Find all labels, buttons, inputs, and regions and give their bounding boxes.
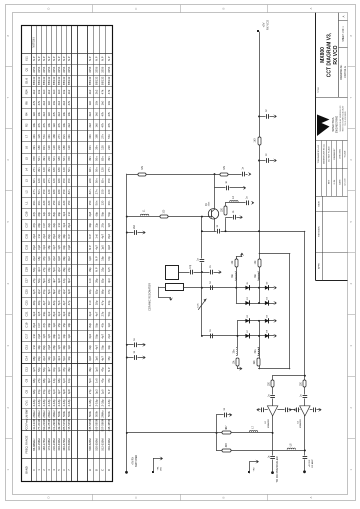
svg-text:180: 180 bbox=[52, 134, 56, 139]
svg-text:56n: 56n bbox=[94, 178, 98, 183]
ground after C34 bbox=[144, 356, 146, 359]
svg-text:220: 220 bbox=[57, 145, 61, 150]
svg-text:N.P: N.P bbox=[94, 267, 98, 272]
junction emitter rail to +5V rail bbox=[258, 230, 260, 232]
junction U2 output node bbox=[272, 432, 274, 434]
svg-text:33p: 33p bbox=[47, 267, 51, 272]
svg-text:18p: 18p bbox=[67, 322, 71, 327]
junction trunk / varactor row 4 bbox=[201, 335, 203, 337]
svg-text:219-253M: 219-253M bbox=[47, 418, 51, 431]
ground row1 bbox=[275, 286, 277, 289]
capacitor C20 bbox=[233, 215, 237, 219]
svg-text:C14: C14 bbox=[24, 355, 28, 360]
capacitor C52 1n bbox=[266, 114, 270, 118]
svg-text:1n0: 1n0 bbox=[32, 333, 36, 338]
transistor Q1 2SC3356 bbox=[208, 209, 219, 219]
svg-text:3356: 3356 bbox=[47, 66, 51, 73]
svg-text:565-595M: 565-595M bbox=[94, 418, 98, 431]
terminal TO RX PRESCALER bbox=[271, 471, 274, 474]
svg-text:N.P: N.P bbox=[94, 256, 98, 261]
wire left feed cluster2 bbox=[237, 321, 239, 347]
diode D6 bbox=[265, 319, 269, 323]
svg-text:L1: L1 bbox=[24, 201, 28, 204]
inductor L3 mid feed bbox=[258, 272, 259, 280]
svg-text:4p7: 4p7 bbox=[101, 333, 105, 338]
svg-text:N.P: N.P bbox=[37, 323, 41, 328]
svg-text:6p8: 6p8 bbox=[88, 211, 92, 216]
svg-text:L5: L5 bbox=[24, 157, 28, 160]
svg-text:15p: 15p bbox=[57, 322, 61, 327]
svg-text:193-219M: 193-219M bbox=[42, 418, 46, 431]
svg-text:82p: 82p bbox=[94, 289, 98, 294]
svg-text:N.P: N.P bbox=[62, 56, 66, 61]
svg-text:39p: 39p bbox=[67, 311, 71, 316]
svg-text:2-18p: 2-18p bbox=[88, 399, 92, 407]
svg-text:56p: 56p bbox=[94, 322, 98, 327]
svg-text:470-500M: 470-500M bbox=[67, 438, 71, 451]
svg-text:27p: 27p bbox=[37, 378, 41, 383]
svg-text:33p: 33p bbox=[107, 345, 111, 350]
svg-text:39n: 39n bbox=[94, 145, 98, 150]
svg-text:4p7: 4p7 bbox=[57, 389, 61, 394]
svg-text:2k2: 2k2 bbox=[62, 100, 66, 105]
svg-text:1k0: 1k0 bbox=[253, 138, 256, 143]
svg-text:22p: 22p bbox=[52, 222, 56, 227]
svg-text:10k: 10k bbox=[62, 111, 66, 116]
svg-text:3356: 3356 bbox=[107, 66, 111, 73]
svg-text:39p: 39p bbox=[94, 278, 98, 283]
svg-text:C13: C13 bbox=[24, 367, 28, 372]
ground after C12 bbox=[244, 186, 246, 189]
svg-text:1n0: 1n0 bbox=[88, 300, 92, 305]
svg-text:448-485M: 448-485M bbox=[107, 418, 111, 431]
svg-text:1k0: 1k0 bbox=[57, 89, 61, 94]
inductor L4 left feed bbox=[235, 272, 236, 280]
svg-text:500k: 500k bbox=[107, 410, 111, 417]
svg-text:1p0: 1p0 bbox=[107, 322, 111, 327]
svg-text:82n: 82n bbox=[88, 145, 92, 150]
svg-text:CHECKED: CHECKED bbox=[339, 148, 341, 159]
chevron in U3 bbox=[293, 408, 295, 411]
svg-text:C8: C8 bbox=[24, 390, 28, 394]
svg-text:2-18p: 2-18p bbox=[32, 399, 36, 407]
svg-text:6p8: 6p8 bbox=[57, 278, 61, 283]
svg-text:6p8: 6p8 bbox=[67, 245, 71, 250]
diode D2 bbox=[265, 286, 269, 290]
wire right amp column bbox=[304, 376, 306, 472]
svg-text:15p: 15p bbox=[37, 389, 41, 394]
svg-text:2-18p: 2-18p bbox=[57, 399, 61, 407]
capacitor C36 series left amp bbox=[271, 395, 275, 399]
svg-text:1k0: 1k0 bbox=[47, 100, 51, 105]
wire resonator lower to row 2 bbox=[183, 287, 202, 289]
junction trunk / C32 stub bbox=[126, 344, 128, 346]
svg-text:C: C bbox=[134, 8, 138, 10]
svg-text:3p3: 3p3 bbox=[94, 389, 98, 394]
ground after C52 bbox=[275, 115, 277, 118]
svg-text:2MHz: 2MHz bbox=[101, 410, 105, 418]
svg-text:5p6: 5p6 bbox=[52, 356, 56, 361]
svg-text:39n: 39n bbox=[47, 167, 51, 172]
svg-text:APPD: APPD bbox=[318, 263, 321, 269]
svg-text:C18732.G: C18732.G bbox=[343, 66, 347, 78]
svg-text:27n: 27n bbox=[107, 167, 111, 172]
svg-text:NOTES(-): NOTES(-) bbox=[32, 37, 35, 48]
svg-text:C29: C29 bbox=[24, 267, 28, 272]
svg-text:3356: 3356 bbox=[62, 66, 66, 73]
svg-text:2-18p: 2-18p bbox=[107, 399, 111, 407]
resistor R5 bbox=[160, 215, 168, 218]
svg-text:220: 220 bbox=[47, 200, 51, 205]
svg-text:68p: 68p bbox=[37, 222, 41, 227]
svg-text:68p: 68p bbox=[94, 211, 98, 216]
capacitor C18 on L2 row bbox=[246, 201, 250, 205]
svg-text:39n: 39n bbox=[107, 200, 111, 205]
svg-text:68p: 68p bbox=[37, 211, 41, 216]
capacitor C34 1n bbox=[134, 356, 138, 360]
svg-text:BB132: BB132 bbox=[47, 76, 51, 85]
svg-text:180: 180 bbox=[57, 167, 61, 172]
svg-text:47p: 47p bbox=[101, 300, 105, 305]
ceramic resonator X1 upper bbox=[166, 266, 179, 280]
svg-text:10k: 10k bbox=[107, 100, 111, 105]
diode D7 bbox=[245, 334, 249, 338]
svg-text:120: 120 bbox=[42, 167, 46, 172]
svg-text:174-208M: 174-208M bbox=[47, 438, 51, 451]
svg-text:2p2: 2p2 bbox=[42, 234, 46, 239]
wire C20 stub bbox=[226, 217, 241, 219]
wire trunk lower extension to control terminal bbox=[126, 433, 128, 472]
svg-text:10k: 10k bbox=[62, 122, 66, 127]
svg-text:2p2: 2p2 bbox=[37, 289, 41, 294]
svg-text:N.P: N.P bbox=[88, 245, 92, 250]
svg-text:47k: 47k bbox=[37, 100, 41, 105]
svg-text:3p3: 3p3 bbox=[42, 245, 46, 250]
capacitor C40 bbox=[285, 408, 289, 412]
wire resonator row 1 bbox=[179, 272, 202, 274]
svg-text:22p: 22p bbox=[47, 389, 51, 394]
svg-text:8p2: 8p2 bbox=[67, 222, 71, 227]
svg-text:150: 150 bbox=[101, 189, 105, 194]
svg-text:10k: 10k bbox=[52, 100, 56, 105]
ground left column bottom bbox=[240, 367, 242, 370]
svg-text:39p: 39p bbox=[88, 222, 92, 227]
svg-text:68p: 68p bbox=[42, 378, 46, 383]
test point TP1 bbox=[152, 471, 154, 473]
svg-text:C: C bbox=[134, 496, 138, 498]
junction row4 left feed bbox=[237, 335, 239, 337]
svg-text:39n: 39n bbox=[57, 200, 61, 205]
svg-text:111-133M: 111-133M bbox=[32, 418, 36, 431]
inductor L2 bbox=[230, 200, 238, 201]
svg-text:180: 180 bbox=[52, 189, 56, 194]
svg-text:3356: 3356 bbox=[88, 66, 92, 73]
svg-text:33p: 33p bbox=[101, 267, 105, 272]
svg-text:N.P: N.P bbox=[32, 56, 36, 61]
capacitor C50 series left output bbox=[271, 456, 275, 460]
svg-text:2p2: 2p2 bbox=[57, 267, 61, 272]
svg-text:2MHz: 2MHz bbox=[42, 410, 46, 418]
svg-text:2p2: 2p2 bbox=[62, 289, 66, 294]
svg-text:33p: 33p bbox=[94, 222, 98, 227]
svg-text:27p: 27p bbox=[32, 278, 36, 283]
svg-text:MELBOURNE:487 SOMERVILLE RD: MELBOURNE:487 SOMERVILLE RD bbox=[340, 105, 342, 132]
svg-text:22p: 22p bbox=[67, 267, 71, 272]
svg-text:+5V RX: +5V RX bbox=[309, 459, 311, 467]
svg-text:10p: 10p bbox=[67, 356, 71, 361]
svg-text:39p: 39p bbox=[52, 333, 56, 338]
svg-text:2MHz: 2MHz bbox=[47, 410, 51, 418]
svg-text:27p: 27p bbox=[88, 389, 92, 394]
svg-text:1p0: 1p0 bbox=[88, 256, 92, 261]
svg-text:545-565M: 545-565M bbox=[88, 418, 92, 431]
svg-text:68p: 68p bbox=[32, 389, 36, 394]
svg-text:220: 220 bbox=[42, 200, 46, 205]
diode D4 bbox=[265, 301, 269, 305]
svg-text:6p8: 6p8 bbox=[67, 389, 71, 394]
svg-text:39n: 39n bbox=[32, 200, 36, 205]
svg-text:120: 120 bbox=[101, 200, 105, 205]
svg-text:1k0: 1k0 bbox=[88, 100, 92, 105]
svg-text:150: 150 bbox=[67, 156, 71, 161]
svg-text:4p7: 4p7 bbox=[94, 345, 98, 350]
svg-text:520-550M: 520-550M bbox=[94, 438, 98, 451]
svg-text:18p: 18p bbox=[37, 256, 41, 261]
svg-text:L2: L2 bbox=[24, 190, 28, 193]
svg-text:C37: C37 bbox=[24, 222, 28, 227]
svg-text:47k: 47k bbox=[52, 111, 56, 116]
svg-text:3356: 3356 bbox=[37, 66, 41, 73]
capacitor C54 1n bbox=[266, 159, 270, 163]
resistor R14 in supply row bbox=[222, 431, 231, 434]
svg-text:D: D bbox=[107, 469, 111, 471]
svg-text:47k: 47k bbox=[42, 122, 46, 127]
svg-text:56n: 56n bbox=[107, 134, 111, 139]
svg-text:1p0: 1p0 bbox=[67, 333, 71, 338]
amplifier U3 MSA0886 bbox=[300, 406, 310, 416]
svg-text:1p5: 1p5 bbox=[101, 245, 105, 250]
svg-text:39p: 39p bbox=[62, 234, 66, 239]
svg-text:82n: 82n bbox=[67, 189, 71, 194]
svg-text:39n: 39n bbox=[42, 156, 46, 161]
svg-text:C17: C17 bbox=[24, 333, 28, 338]
riser emitter resistor bottom bbox=[225, 219, 227, 232]
svg-text:120: 120 bbox=[101, 145, 105, 150]
svg-text:500k: 500k bbox=[67, 410, 71, 417]
svg-text:56p: 56p bbox=[94, 333, 98, 338]
svg-text:1p5: 1p5 bbox=[107, 222, 111, 227]
wire +5V rail vertical bbox=[259, 32, 261, 254]
svg-text:10k: 10k bbox=[94, 100, 98, 105]
svg-text:39n: 39n bbox=[88, 156, 92, 161]
wire C30 stub bbox=[127, 232, 144, 234]
svg-text:39n: 39n bbox=[88, 134, 92, 139]
svg-text:RX VCO: RX VCO bbox=[333, 45, 339, 64]
svg-text:1k0: 1k0 bbox=[42, 89, 46, 94]
test point TP2 bbox=[248, 471, 250, 473]
svg-text:FREQ. RANGE: FREQ. RANGE bbox=[24, 435, 28, 453]
svg-text:2-18p: 2-18p bbox=[52, 399, 56, 407]
svg-text:39n: 39n bbox=[32, 134, 36, 139]
capacitor C24 resonator coupling bbox=[190, 270, 194, 274]
amplifier U2 MSA0886 bbox=[267, 406, 277, 416]
capacitor C42 bbox=[296, 408, 300, 412]
svg-text:C23: C23 bbox=[24, 300, 28, 305]
junction switched supply / branch bbox=[216, 432, 218, 434]
svg-text:47k: 47k bbox=[101, 89, 105, 94]
svg-text:150: 150 bbox=[42, 189, 46, 194]
ground after C32 bbox=[144, 343, 146, 346]
inductor L8 in lower row bbox=[287, 448, 295, 449]
ground after C48 bbox=[230, 413, 232, 416]
svg-text:440-470M: 440-470M bbox=[62, 438, 66, 451]
node +5V supply terminal bbox=[257, 30, 259, 32]
svg-text:N.P: N.P bbox=[107, 367, 111, 372]
wire amp feed horizontal bbox=[273, 375, 305, 377]
svg-text:+5V: +5V bbox=[262, 22, 266, 27]
svg-text:2k2: 2k2 bbox=[88, 123, 92, 128]
resistor R7 emitter bbox=[224, 206, 227, 215]
svg-text:C31: C31 bbox=[24, 256, 28, 261]
wire left feed drop row1-row2 bbox=[236, 288, 238, 303]
svg-text:C39: C39 bbox=[24, 211, 28, 216]
svg-text:D: D bbox=[47, 496, 51, 498]
svg-text:8p2: 8p2 bbox=[52, 234, 56, 239]
svg-text:C19: C19 bbox=[24, 322, 28, 327]
wire C32 stub bbox=[127, 344, 144, 346]
svg-text:N.P: N.P bbox=[107, 389, 111, 394]
svg-text:3p3: 3p3 bbox=[88, 333, 92, 338]
svg-text:220: 220 bbox=[42, 178, 46, 183]
svg-text:500k: 500k bbox=[57, 410, 61, 417]
svg-text:12p: 12p bbox=[47, 211, 51, 216]
wire left amp column bbox=[272, 376, 274, 473]
svg-text:DO NOT SCALE: DO NOT SCALE bbox=[328, 146, 331, 162]
svg-text:56p: 56p bbox=[32, 267, 36, 272]
wire U2 to U3 coupling bbox=[278, 409, 300, 411]
wire branch drop down bbox=[216, 433, 218, 451]
svg-text:515-545M: 515-545M bbox=[67, 418, 71, 431]
svg-text:SPECTRA: SPECTRA bbox=[331, 117, 335, 131]
svg-text:15p: 15p bbox=[42, 289, 46, 294]
svg-text:47k: 47k bbox=[32, 100, 36, 105]
svg-text:MSA0886: MSA0886 bbox=[299, 418, 302, 428]
ground after C30 bbox=[144, 231, 146, 234]
svg-text:82n: 82n bbox=[62, 134, 66, 139]
junction row3 mid feed bbox=[258, 320, 260, 322]
svg-text:12p: 12p bbox=[42, 211, 46, 216]
svg-text:2-18p: 2-18p bbox=[37, 399, 41, 407]
svg-text:N.P: N.P bbox=[42, 56, 46, 61]
ground U2 left bbox=[256, 408, 258, 411]
svg-text:150: 150 bbox=[67, 178, 71, 183]
svg-text:1n0: 1n0 bbox=[57, 222, 61, 227]
svg-text:N.P: N.P bbox=[57, 56, 61, 61]
svg-text:3p3: 3p3 bbox=[47, 311, 51, 316]
svg-text:39p: 39p bbox=[67, 367, 71, 372]
svg-text:4p7: 4p7 bbox=[52, 245, 56, 250]
svg-text:56n: 56n bbox=[62, 156, 66, 161]
svg-text:MSA0886: MSA0886 bbox=[267, 418, 270, 428]
svg-text:CCT DIAGRAM V3,: CCT DIAGRAM V3, bbox=[326, 32, 332, 77]
svg-text:3p3: 3p3 bbox=[62, 311, 66, 316]
svg-text:1p5: 1p5 bbox=[32, 367, 36, 372]
svg-text:6p8: 6p8 bbox=[37, 333, 41, 338]
svg-text:2p2: 2p2 bbox=[52, 256, 56, 261]
svg-text:120: 120 bbox=[67, 145, 71, 150]
svg-text:C: C bbox=[101, 469, 105, 471]
wire emitter drop bbox=[214, 218, 216, 231]
svg-text:N.P: N.P bbox=[52, 56, 56, 61]
svg-text:BB132: BB132 bbox=[107, 76, 111, 85]
svg-text:5p6: 5p6 bbox=[47, 289, 51, 294]
svg-text:TITLE: TITLE bbox=[318, 86, 320, 92]
ground after C20 bbox=[241, 216, 243, 219]
wire mid feed column upper bbox=[259, 254, 261, 288]
trimmer CV1 arrow bbox=[198, 299, 206, 310]
svg-text:1p5: 1p5 bbox=[57, 345, 61, 350]
svg-text:47p: 47p bbox=[101, 322, 105, 327]
svg-text:27p: 27p bbox=[32, 222, 36, 227]
svg-text:5p6: 5p6 bbox=[42, 278, 46, 283]
svg-text:1p0: 1p0 bbox=[52, 322, 56, 327]
svg-text:10p: 10p bbox=[62, 333, 66, 338]
wire U2 left stub bbox=[259, 409, 268, 411]
svg-text:8p2: 8p2 bbox=[52, 311, 56, 316]
wire varactor row 2 bbox=[236, 303, 274, 305]
svg-text:150: 150 bbox=[32, 156, 36, 161]
svg-text:485-515M: 485-515M bbox=[62, 418, 66, 431]
wire C52 stub bbox=[259, 116, 274, 118]
svg-text:33p: 33p bbox=[62, 245, 66, 250]
svg-text:R24: R24 bbox=[24, 89, 28, 94]
svg-text:10k: 10k bbox=[67, 111, 71, 116]
svg-text:180: 180 bbox=[62, 145, 66, 150]
resistor R15 in lower row bbox=[222, 449, 231, 452]
svg-text:BAND: BAND bbox=[24, 466, 28, 474]
svg-text:RX VCO: RX VCO bbox=[265, 20, 269, 30]
svg-text:1p0: 1p0 bbox=[52, 389, 56, 394]
svg-text:18p: 18p bbox=[101, 256, 105, 261]
svg-text:39n: 39n bbox=[67, 134, 71, 139]
svg-text:27p: 27p bbox=[32, 211, 36, 216]
svg-text:4p7: 4p7 bbox=[42, 300, 46, 305]
svg-text:2p2: 2p2 bbox=[88, 311, 92, 316]
svg-text:39p: 39p bbox=[47, 322, 51, 327]
svg-text:39n: 39n bbox=[107, 156, 111, 161]
junction trunk / C34 stub bbox=[126, 357, 128, 359]
svg-text:47p: 47p bbox=[107, 378, 111, 383]
svg-text:10k: 10k bbox=[37, 111, 41, 116]
svg-text:1k0: 1k0 bbox=[94, 123, 98, 128]
svg-text:47k: 47k bbox=[67, 100, 71, 105]
svg-text:120: 120 bbox=[52, 145, 56, 150]
svg-text:2k2: 2k2 bbox=[32, 89, 36, 94]
svg-text:1k0: 1k0 bbox=[32, 111, 36, 116]
wire emitter resistor top to L2 row bbox=[225, 203, 227, 206]
svg-text:A: A bbox=[341, 15, 345, 17]
svg-text:TEL 61-3-9318 0615: TEL 61-3-9318 0615 bbox=[345, 111, 347, 125]
svg-text:2p2: 2p2 bbox=[32, 234, 36, 239]
svg-text:2p2: 2p2 bbox=[32, 256, 36, 261]
svg-text:5p6: 5p6 bbox=[62, 356, 66, 361]
svg-text:150: 150 bbox=[62, 189, 66, 194]
svg-text:3p3: 3p3 bbox=[62, 211, 66, 216]
svg-text:5p6: 5p6 bbox=[52, 267, 56, 272]
capacitor C12 on collector stub bbox=[226, 186, 230, 190]
svg-text:4p7: 4p7 bbox=[101, 356, 105, 361]
svg-text:BB132: BB132 bbox=[37, 76, 41, 85]
